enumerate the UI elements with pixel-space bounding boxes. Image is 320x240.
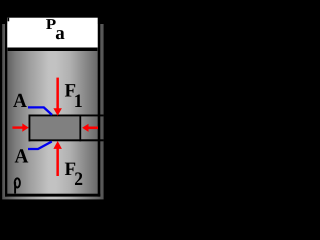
right wall inner black line: [98, 24, 101, 197]
block left border: [29, 115, 31, 142]
svg-text:1: 1: [74, 91, 83, 112]
block: [30, 116, 79, 139]
bottom wall inner black line: [5, 194, 100, 197]
left wall inner black line: [5, 24, 7, 197]
piston Pa box: [7, 18, 97, 51]
block top border: [29, 115, 104, 117]
svg-text:A: A: [13, 90, 27, 112]
left pressure arrow: [12, 123, 28, 131]
piston bottom border: [7, 48, 97, 52]
leader A bottom: [28, 142, 52, 150]
force F2 arrow: [53, 141, 62, 176]
label rho: [15, 178, 20, 193]
block divider: [79, 115, 81, 142]
container body (walls + fluid, cylindrical shading): [2, 24, 103, 199]
svg-text:a: a: [55, 23, 65, 44]
svg-text:A: A: [15, 146, 29, 168]
force F1 arrow: [53, 78, 62, 116]
svg-text:2: 2: [74, 169, 83, 190]
right pressure arrow: [82, 124, 98, 132]
piston corner tick: [8, 18, 10, 22]
leader A top: [28, 107, 52, 115]
block bottom border: [29, 139, 104, 141]
